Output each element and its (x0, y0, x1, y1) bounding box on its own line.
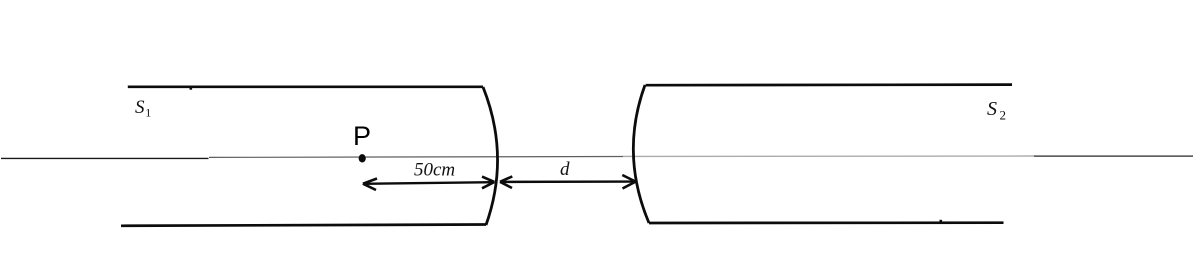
svg-text:S: S (135, 97, 145, 118)
svg-text:2: 2 (1000, 108, 1007, 123)
svg-text:d: d (560, 159, 570, 180)
svg-text:50cm: 50cm (414, 160, 455, 181)
svg-text:P: P (353, 121, 371, 151)
svg-text:1: 1 (145, 106, 151, 120)
svg-text:S: S (987, 98, 997, 120)
